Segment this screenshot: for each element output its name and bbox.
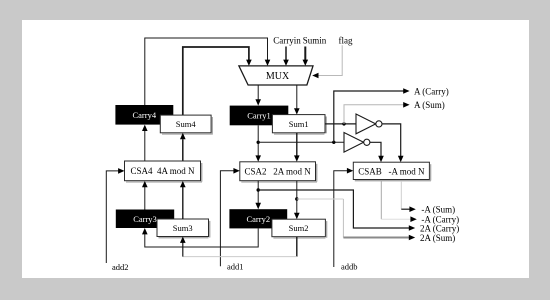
svg-text:flag: flag [339,36,353,46]
svg-text:Sum1: Sum1 [289,119,309,129]
svg-text:add1: add1 [227,262,244,272]
wire A (Sum) output gray [344,102,410,124]
node junction on Sum1 output [342,122,345,125]
node Carryin input arrow [283,47,289,66]
svg-text:Sum4: Sum4 [176,119,197,129]
wire Carry2 to Carry3 [142,228,258,247]
mux MUX [239,66,313,85]
wire CSA2 to Sum2 with junction [294,181,300,220]
wire CSAB to -A (Carry) output [381,181,417,222]
wire Carry1 to CSA2 with junction [255,125,261,162]
wire Sum1 to CSA2 [294,133,300,162]
svg-text:add2: add2 [112,262,129,272]
svg-text:Carry3: Carry3 [133,214,157,224]
node junction on A(Carry) riser [332,141,335,144]
wire 2A (Carry) output [258,190,415,231]
adder CSAB -A mod N [353,162,431,181]
node Sumin input arrow [303,47,309,66]
inverter U2 lower [344,133,370,153]
wire Carry1 lateral to inverter input [258,141,344,143]
svg-text:CSAB -A mod N: CSAB -A mod N [358,166,425,176]
svg-text:CSA4 4A mod N: CSA4 4A mod N [130,166,195,176]
wire Sum3 to CSA4 [180,181,186,219]
adder CSA4 4A mod N [125,161,203,183]
wire flag to MUX select [312,45,342,78]
wire A (Carry) output [334,88,410,142]
inverter U1 upper [356,114,382,134]
wire add1 input to CSA2 [220,168,239,266]
adder CSA2 2A mod N [240,162,318,183]
wire Sum4 feedback to MUX input 1 [183,47,252,115]
wire CSA4 to Carry4 [142,125,148,161]
register Sum4 [160,115,213,135]
register Sum2 [272,219,327,238]
register Carry2 [229,209,287,228]
wire CSAB to -A (Sum) output [401,181,416,212]
wire inverter U2 output to CSAB [370,142,384,162]
wire add2 input to CSA4 [106,168,124,263]
register Sum3 [157,219,210,238]
svg-text:A (Sum): A (Sum) [414,100,445,110]
wire inverter U1 output to CSAB [382,124,403,162]
svg-text:Carryin: Carryin [273,36,301,46]
wire Sum2 to Sum3 [180,237,297,257]
svg-text:2A (Sum): 2A (Sum) [420,233,455,243]
wire Carry4 feedback to MUX input 2 [145,38,270,105]
wire 2A (Sum) output gray [297,199,415,240]
svg-text:Sum2: Sum2 [289,223,309,233]
wire CSA4 to Sum4 [180,133,186,161]
svg-text:CSA2 2A mod N: CSA2 2A mod N [244,167,311,177]
wire Sum1 to inverter input [325,123,356,125]
wire addb input to CSAB [334,168,354,267]
wire MUX to Sum1 [294,85,300,115]
register Sum1 [272,115,327,135]
svg-text:Carry2: Carry2 [246,214,270,224]
register Carry4 [115,105,173,125]
svg-text:Carry4: Carry4 [132,110,156,120]
svg-text:Sum3: Sum3 [173,223,193,233]
svg-text:-A (Carry): -A (Carry) [421,215,459,225]
svg-text:addb: addb [341,262,358,272]
register Carry1 [230,106,289,126]
svg-text:-A (Sum): -A (Sum) [421,205,455,215]
wire Carry3 to CSA4 [142,181,148,210]
svg-text:Sumin: Sumin [303,36,327,46]
svg-text:MUX: MUX [266,71,290,82]
wire CSA2 to Carry2 with junction [255,181,261,210]
register Carry3 [116,210,174,229]
svg-text:Carry1: Carry1 [247,111,271,121]
wire MUX to Carry1 [255,85,261,106]
svg-text:A (Carry): A (Carry) [414,86,449,96]
